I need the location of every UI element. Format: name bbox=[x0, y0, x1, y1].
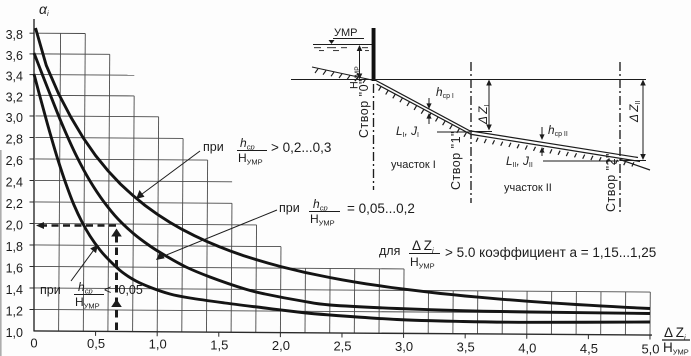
dam thick bar bbox=[372, 28, 376, 81]
x-axis ticks bbox=[96, 331, 650, 339]
svg-text:Створ "0": Створ "0" bbox=[357, 79, 371, 138]
svg-text:> 5.0 коэффициент а = 1,15...1: > 5.0 коэффициент а = 1,15...1,25 bbox=[445, 245, 656, 260]
svg-text:при: при bbox=[203, 140, 224, 154]
svg-text:Створ "2": Створ "2" bbox=[604, 153, 618, 212]
svg-text:1,5: 1,5 bbox=[210, 337, 228, 352]
svg-text:1,6: 1,6 bbox=[6, 262, 23, 276]
h_cp I dimension bbox=[426, 98, 431, 124]
svg-text:3,0: 3,0 bbox=[6, 111, 23, 125]
water surface line bbox=[313, 44, 372, 46]
svg-text:участок II: участок II bbox=[504, 182, 552, 194]
annotation 2: pri h/H = 0,05...0,2 bbox=[279, 197, 415, 228]
datum line A bbox=[291, 79, 646, 81]
channel section II bbox=[471, 131, 650, 170]
svg-text:4,0: 4,0 bbox=[518, 340, 536, 355]
x-axis bbox=[34, 331, 652, 335]
left bank slope + hatches bbox=[312, 67, 372, 83]
UMR water label bbox=[333, 27, 364, 39]
annotation 4: pri h/H < 0,05 bbox=[40, 280, 143, 311]
L_II J_II label with leader bbox=[506, 154, 619, 169]
L_I J_I label with leader bbox=[396, 124, 470, 139]
svg-text:0,5: 0,5 bbox=[87, 336, 105, 351]
dZ_II dimension bbox=[620, 80, 646, 161]
svg-text:участок I: участок I bbox=[391, 159, 436, 171]
svg-text:3,4: 3,4 bbox=[6, 70, 23, 84]
svg-text:2,8: 2,8 bbox=[6, 133, 23, 147]
stvor 1 axis line bbox=[470, 62, 472, 203]
svg-text:LI, JI: LI, JI bbox=[396, 124, 419, 139]
grid (staircase) bbox=[34, 33, 652, 335]
svg-text:3,8: 3,8 bbox=[6, 28, 23, 42]
h_cp II dimension bbox=[539, 127, 544, 156]
stvor 2 axis line bbox=[619, 62, 621, 215]
svg-text:УМР: УМР bbox=[334, 27, 358, 39]
svg-text:0: 0 bbox=[30, 336, 37, 351]
svg-text:1,4: 1,4 bbox=[6, 283, 23, 297]
svg-text:2,4: 2,4 bbox=[6, 176, 23, 190]
svg-text:1,0: 1,0 bbox=[149, 337, 167, 352]
svg-text:LII, JII: LII, JII bbox=[506, 154, 533, 169]
svg-text:0,05: 0,05 bbox=[119, 283, 143, 297]
svg-text:3,6: 3,6 bbox=[6, 49, 23, 63]
svg-text:3,2: 3,2 bbox=[6, 90, 23, 104]
svg-text:4,5: 4,5 bbox=[580, 341, 598, 356]
svg-text:1,2: 1,2 bbox=[6, 305, 23, 319]
annotation 4 pointer bbox=[71, 245, 98, 282]
svg-text:при: при bbox=[40, 283, 61, 297]
annotation 1: pri h/H > 0,2...0,3 bbox=[203, 136, 331, 167]
dZ_I dimension bbox=[472, 80, 492, 132]
svg-text:1,0: 1,0 bbox=[6, 326, 23, 340]
scan edge smudge bbox=[0, 150, 2, 356]
svg-text:2,6: 2,6 bbox=[6, 154, 23, 168]
svg-text:2,0: 2,0 bbox=[272, 338, 290, 353]
svg-text:1,8: 1,8 bbox=[6, 240, 23, 254]
channel section I (two parallel lines) bbox=[375, 80, 472, 137]
curve 3 (bottom) bbox=[34, 74, 650, 322]
svg-text:Δ Zi: Δ Zi bbox=[412, 238, 434, 255]
svg-text:Δ ZI: Δ ZI bbox=[476, 105, 491, 125]
svg-text:3,5: 3,5 bbox=[457, 340, 475, 355]
svg-text:<: < bbox=[104, 283, 111, 297]
svg-text:Створ "1": Створ "1" bbox=[449, 131, 463, 190]
svg-text:для: для bbox=[379, 244, 400, 258]
curve 1 (top) bbox=[36, 28, 651, 309]
svg-text:= 0,05...0,2: = 0,05...0,2 bbox=[347, 201, 415, 216]
y-axis ticks bbox=[30, 33, 35, 309]
dashed construction: vertical at x=0.67 bbox=[111, 229, 122, 331]
svg-text:2,0: 2,0 bbox=[6, 219, 23, 233]
H_umr dimension bbox=[357, 45, 363, 80]
svg-text:3,0: 3,0 bbox=[395, 339, 413, 354]
water level mark bbox=[329, 40, 335, 44]
x-axis unit label fraction dZ_i/H_umr bbox=[662, 325, 690, 356]
y-axis numeric labels bbox=[6, 28, 23, 340]
svg-text:5,0: 5,0 bbox=[641, 342, 659, 356]
svg-text:2,5: 2,5 bbox=[333, 339, 351, 354]
dashed construction: horizontal at alpha=2.0 bbox=[36, 222, 117, 229]
annotation 3: dlya dZ/H > 5.0 coefficient bbox=[379, 238, 656, 271]
annotation 1 pointer bbox=[136, 151, 200, 199]
annotation 2 pointer bbox=[156, 210, 277, 260]
stvor 0 axis line bbox=[373, 84, 375, 190]
svg-text:при: при bbox=[279, 201, 300, 215]
svg-text:> 0,2...0,3: > 0,2...0,3 bbox=[271, 140, 331, 155]
svg-text:2,2: 2,2 bbox=[6, 197, 23, 211]
water ripple dashes bbox=[314, 48, 369, 51]
curve 2 (middle) bbox=[34, 53, 650, 314]
y-axis bbox=[33, 19, 35, 332]
x-axis numeric labels bbox=[30, 336, 659, 356]
